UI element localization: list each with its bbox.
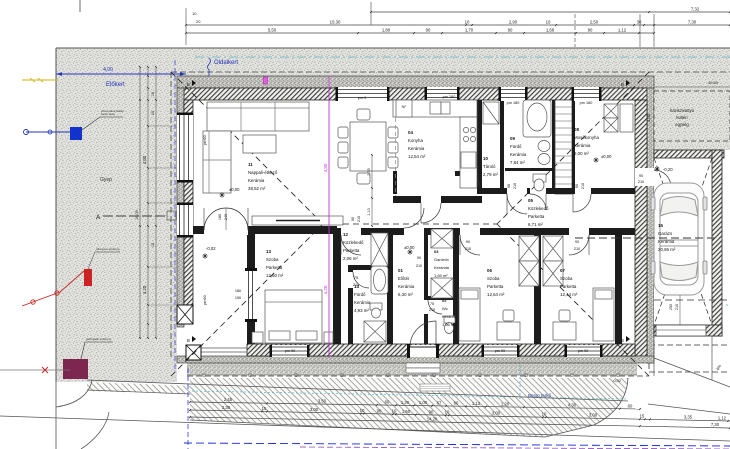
svg-text:7,30: 7,30 <box>688 20 697 25</box>
svg-text:Kerámia: Kerámia <box>354 300 371 305</box>
svg-text:B: B <box>621 338 624 343</box>
svg-text:pm 180: pm 180 <box>443 95 456 99</box>
svg-text:01: 01 <box>398 268 403 273</box>
svg-text:2,06 m²: 2,06 m² <box>343 256 358 261</box>
svg-text:15: 15 <box>640 414 645 419</box>
svg-text:04: 04 <box>408 130 413 135</box>
svg-text:5,50: 5,50 <box>268 28 277 33</box>
svg-text:1,00: 1,00 <box>419 400 428 405</box>
svg-text:10: 10 <box>483 156 488 161</box>
svg-text:Kerámia: Kerámia <box>434 265 450 270</box>
svg-text:pm 0: pm 0 <box>358 96 366 100</box>
svg-text:pm 90: pm 90 <box>285 349 296 353</box>
svg-text:3,35: 3,35 <box>684 415 693 420</box>
svg-text:Kerámia: Kerámia <box>248 178 265 183</box>
svg-text:2,55: 2,55 <box>367 168 371 175</box>
svg-text:pm90: pm90 <box>203 295 207 305</box>
svg-text:Kerámia: Kerámia <box>442 314 458 319</box>
svg-text:4,30: 4,30 <box>568 402 577 407</box>
svg-text:-0,02: -0,02 <box>206 246 216 251</box>
svg-text:Parketta: Parketta <box>266 265 283 270</box>
svg-text:210: 210 <box>574 247 580 251</box>
svg-text:pm90: pm90 <box>203 135 207 145</box>
svg-text:08: 08 <box>574 127 579 132</box>
svg-text:Kerámia: Kerámia <box>510 152 527 157</box>
svg-text:210: 210 <box>675 304 679 310</box>
svg-text:1,12: 1,12 <box>618 28 627 33</box>
svg-text:±0,00: ±0,00 <box>229 187 240 192</box>
svg-text:40,60: 40,60 <box>708 80 719 85</box>
svg-text:10: 10 <box>392 409 397 414</box>
svg-text:Előkert: Előkert <box>106 82 125 88</box>
svg-text:NF: NF <box>402 105 408 109</box>
svg-text:180: 180 <box>218 214 222 220</box>
svg-text:10: 10 <box>445 410 450 415</box>
svg-text:1,96 m²: 1,96 m² <box>442 322 456 327</box>
svg-text:háziszivattyú: háziszivattyú <box>670 108 695 113</box>
svg-text:180: 180 <box>235 289 241 293</box>
svg-text:05: 05 <box>528 198 533 203</box>
svg-text:Szoba: Szoba <box>487 276 500 281</box>
svg-text:210: 210 <box>429 308 435 312</box>
svg-text:06: 06 <box>487 268 492 273</box>
svg-text:60: 60 <box>385 400 390 405</box>
svg-text:Garázs: Garázs <box>658 231 673 236</box>
svg-text:67: 67 <box>437 400 442 405</box>
svg-text:A: A <box>96 214 101 221</box>
svg-text:10: 10 <box>360 408 365 413</box>
svg-text:-0,20: -0,20 <box>663 167 673 172</box>
svg-text:10: 10 <box>546 20 551 25</box>
svg-text:1,68: 1,68 <box>546 28 555 33</box>
svg-text:90: 90 <box>426 28 431 33</box>
svg-text:3,00: 3,00 <box>589 413 598 418</box>
svg-text:kültéri: kültéri <box>676 115 687 120</box>
svg-text:7,32: 7,32 <box>691 7 700 12</box>
svg-text:Parketta: Parketta <box>528 214 545 219</box>
svg-text:90: 90 <box>588 28 593 33</box>
svg-text:03: 03 <box>434 249 439 254</box>
svg-text:1,13: 1,13 <box>472 401 481 406</box>
svg-text:Kerámia: Kerámia <box>408 146 425 151</box>
svg-text:pm 90: pm 90 <box>578 349 589 353</box>
svg-text:1,20: 1,20 <box>501 401 510 406</box>
svg-text:Tároló: Tároló <box>483 164 496 169</box>
svg-text:7,30: 7,30 <box>711 422 720 427</box>
svg-text:15: 15 <box>151 92 155 96</box>
svg-text:Közlekedő: Közlekedő <box>343 240 364 245</box>
svg-text:Oldalkert: Oldalkert <box>214 60 238 66</box>
svg-text:Konyha: Konyha <box>408 138 423 143</box>
svg-text:2,79 m²: 2,79 m² <box>483 172 498 177</box>
svg-text:15: 15 <box>658 223 663 228</box>
svg-text:beton kava: beton kava <box>101 112 115 116</box>
svg-text:1,10: 1,10 <box>367 208 371 215</box>
svg-text:210: 210 <box>581 183 585 189</box>
svg-text:240: 240 <box>224 214 228 220</box>
svg-text:±0,00: ±0,00 <box>601 154 612 159</box>
svg-text:2,30: 2,30 <box>222 405 231 410</box>
svg-text:13: 13 <box>266 249 271 254</box>
svg-text:90: 90 <box>351 217 355 221</box>
svg-text:7,84 m²: 7,84 m² <box>510 160 525 165</box>
svg-text:10,30: 10,30 <box>330 20 341 25</box>
svg-text:90: 90 <box>575 184 579 188</box>
svg-text:Kerámia: Kerámia <box>574 143 591 148</box>
svg-text:10: 10 <box>542 412 547 417</box>
svg-text:09: 09 <box>510 136 515 141</box>
svg-text:15: 15 <box>151 243 155 247</box>
svg-text:Mosókonyha: Mosókonyha <box>574 135 599 140</box>
svg-text:10,05: 10,05 <box>135 210 139 220</box>
svg-text:4,80: 4,80 <box>323 163 328 172</box>
svg-text:210: 210 <box>416 264 422 268</box>
svg-text:Nappali-étkező: Nappali-étkező <box>248 170 278 175</box>
svg-text:60: 60 <box>454 401 459 406</box>
svg-text:B: B <box>621 82 624 87</box>
svg-text:Kerámia: Kerámia <box>658 239 675 244</box>
svg-text:4,20: 4,20 <box>323 285 328 294</box>
svg-text:pm 90: pm 90 <box>495 349 506 353</box>
svg-text:75: 75 <box>354 276 358 280</box>
svg-text:12: 12 <box>343 232 348 237</box>
svg-text:90: 90 <box>507 184 511 188</box>
svg-text:gazfogado szekreny: gazfogado szekreny <box>86 337 112 341</box>
svg-text:20: 20 <box>151 111 155 115</box>
svg-text:2,90: 2,90 <box>509 20 518 25</box>
svg-text:2,45: 2,45 <box>224 397 233 402</box>
svg-text:B: B <box>187 338 190 343</box>
svg-text:1,20: 1,20 <box>401 400 410 405</box>
svg-text:3,00: 3,00 <box>646 113 651 122</box>
svg-text:Parketta: Parketta <box>487 284 504 289</box>
svg-text:12,54 m²: 12,54 m² <box>408 154 426 159</box>
svg-text:250: 250 <box>669 304 673 310</box>
svg-text:3,50: 3,50 <box>318 399 327 404</box>
svg-text:6,71 m²: 6,71 m² <box>528 222 543 227</box>
svg-text:4,20: 4,20 <box>142 285 147 294</box>
svg-text:1,69 m²: 1,69 m² <box>434 273 448 278</box>
svg-text:±0,00: ±0,00 <box>404 245 415 250</box>
svg-text:1,70: 1,70 <box>465 28 474 33</box>
svg-text:1,80: 1,80 <box>382 28 391 33</box>
svg-text:38,52 m²: 38,52 m² <box>248 186 266 191</box>
svg-text:-0,02: -0,02 <box>612 378 622 383</box>
svg-text:150: 150 <box>235 296 241 300</box>
svg-text:Gyep: Gyep <box>100 177 112 183</box>
svg-text:Szoba: Szoba <box>266 257 279 262</box>
svg-text:9,00 m²: 9,00 m² <box>574 151 589 156</box>
svg-text:1,50: 1,50 <box>402 409 411 414</box>
svg-text:60: 60 <box>628 403 633 408</box>
svg-text:pm 180: pm 180 <box>507 101 520 105</box>
svg-text:2,50: 2,50 <box>590 20 599 25</box>
svg-text:11: 11 <box>248 162 253 167</box>
svg-text:210: 210 <box>357 216 361 222</box>
svg-text:4,00: 4,00 <box>103 67 113 73</box>
svg-text:30: 30 <box>637 20 642 25</box>
svg-text:6,30 m²: 6,30 m² <box>398 292 413 297</box>
svg-text:90: 90 <box>508 28 513 33</box>
svg-text:90: 90 <box>466 240 470 244</box>
svg-text:10: 10 <box>465 20 470 25</box>
svg-text:pm 180: pm 180 <box>580 101 593 105</box>
svg-text:90: 90 <box>377 408 382 413</box>
svg-text:14,20: 14,20 <box>427 416 438 421</box>
svg-text:75: 75 <box>430 302 434 306</box>
svg-text:4,00: 4,00 <box>142 155 147 164</box>
svg-text:20: 20 <box>196 19 201 24</box>
svg-text:Beton terkő: Beton terkő <box>528 393 552 398</box>
svg-text:1,12: 1,12 <box>718 415 727 420</box>
svg-text:07: 07 <box>560 268 565 273</box>
svg-text:Fürdő: Fürdő <box>510 144 522 149</box>
svg-text:Wc: Wc <box>442 306 448 311</box>
svg-text:90: 90 <box>639 174 643 178</box>
svg-text:Előtér: Előtér <box>398 276 410 281</box>
svg-text:90: 90 <box>429 409 434 414</box>
svg-text:Gardrób: Gardrób <box>434 257 449 262</box>
svg-text:210: 210 <box>638 180 644 184</box>
svg-text:B: B <box>187 82 190 87</box>
svg-text:90: 90 <box>417 256 421 260</box>
svg-text:90: 90 <box>575 240 579 244</box>
svg-text:20,65 m²: 20,65 m² <box>658 247 676 252</box>
svg-text:Kerámia: Kerámia <box>398 284 415 289</box>
svg-text:12,60 m²: 12,60 m² <box>266 273 284 278</box>
svg-text:Parketta: Parketta <box>343 248 360 253</box>
svg-text:12,44 m²: 12,44 m² <box>560 292 578 297</box>
svg-text:Szoba: Szoba <box>560 276 573 281</box>
svg-text:12,64 m²: 12,64 m² <box>487 292 505 297</box>
svg-text:Közlekedő: Közlekedő <box>528 206 549 211</box>
svg-text:15: 15 <box>262 406 267 411</box>
svg-text:210: 210 <box>513 183 517 189</box>
svg-text:3,00: 3,00 <box>492 411 501 416</box>
svg-text:3,00: 3,00 <box>310 407 319 412</box>
svg-text:Fürdő: Fürdő <box>354 292 366 297</box>
svg-text:02: 02 <box>442 298 447 303</box>
svg-text:egység: egység <box>675 122 689 127</box>
svg-text:10: 10 <box>192 11 197 16</box>
svg-text:210: 210 <box>465 247 471 251</box>
svg-text:villanyora szekreny: villanyora szekreny <box>96 247 120 251</box>
svg-text:Parketta: Parketta <box>560 284 577 289</box>
svg-text:4,93 m²: 4,93 m² <box>354 308 369 313</box>
svg-text:210: 210 <box>353 283 359 287</box>
